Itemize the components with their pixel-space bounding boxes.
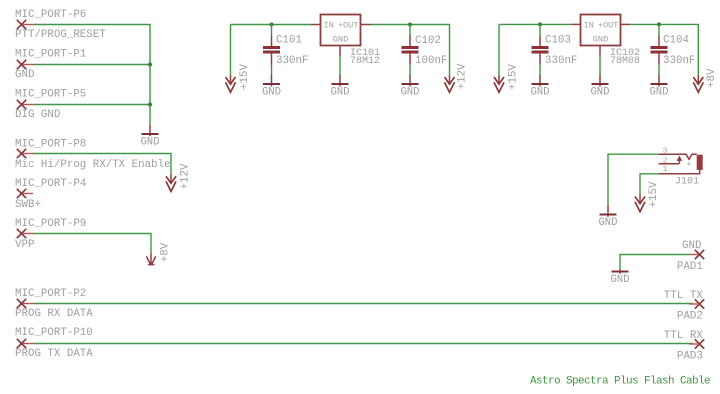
svg-text:C104: C104 bbox=[663, 35, 689, 47]
svg-text:GND: GND bbox=[530, 87, 549, 99]
svg-text:TTL RX: TTL RX bbox=[664, 330, 703, 342]
svg-text:TTL TX: TTL TX bbox=[664, 290, 703, 302]
svg-text:C102: C102 bbox=[415, 35, 441, 47]
svg-text:IN: IN bbox=[584, 20, 594, 30]
svg-text:GND: GND bbox=[400, 87, 419, 99]
svg-text:+15V: +15V bbox=[239, 64, 251, 90]
svg-text:GND: GND bbox=[262, 87, 281, 99]
svg-text:78M12: 78M12 bbox=[350, 56, 380, 67]
svg-text:PAD3: PAD3 bbox=[677, 351, 703, 363]
svg-text:MIC_PORT-P5: MIC_PORT-P5 bbox=[15, 89, 86, 101]
svg-text:MIC_PORT-P2: MIC_PORT-P2 bbox=[15, 288, 86, 300]
svg-text:C101: C101 bbox=[276, 35, 302, 47]
svg-text:+OUT: +OUT bbox=[338, 20, 359, 30]
svg-text:DIG GND: DIG GND bbox=[15, 109, 60, 121]
svg-text:+12V: +12V bbox=[457, 63, 469, 89]
svg-text:Mic Hi/Prog RX/TX Enable: Mic Hi/Prog RX/TX Enable bbox=[15, 159, 171, 171]
svg-text:PAD2: PAD2 bbox=[677, 311, 703, 323]
svg-text:PAD1: PAD1 bbox=[677, 261, 703, 273]
svg-text:+15V: +15V bbox=[508, 64, 520, 90]
svg-text:IN: IN bbox=[324, 20, 334, 30]
svg-text:+: + bbox=[686, 159, 691, 169]
svg-text:1: 1 bbox=[663, 166, 668, 174]
svg-text:330nF: 330nF bbox=[663, 55, 695, 67]
svg-text:330nF: 330nF bbox=[545, 55, 577, 67]
svg-text:MIC_PORT-P9: MIC_PORT-P9 bbox=[15, 218, 86, 230]
svg-text:PROG TX DATA: PROG TX DATA bbox=[15, 348, 93, 360]
svg-text:+8V: +8V bbox=[160, 242, 172, 262]
svg-text:MIC_PORT-P4: MIC_PORT-P4 bbox=[15, 178, 86, 190]
svg-text:330nF: 330nF bbox=[276, 55, 308, 67]
svg-text:+12V: +12V bbox=[180, 163, 192, 189]
svg-text:C103: C103 bbox=[545, 35, 571, 47]
svg-text:Astro Spectra Plus Flash Cable: Astro Spectra Plus Flash Cable bbox=[530, 376, 710, 388]
svg-text:PROG RX DATA: PROG RX DATA bbox=[15, 308, 93, 320]
svg-text:SWB+: SWB+ bbox=[15, 199, 41, 211]
svg-text:100nF: 100nF bbox=[415, 55, 447, 67]
svg-text:GND: GND bbox=[590, 87, 609, 99]
svg-text:GND: GND bbox=[15, 69, 34, 81]
svg-text:MIC_PORT-P1: MIC_PORT-P1 bbox=[15, 49, 86, 61]
svg-text:MIC_PORT-P6: MIC_PORT-P6 bbox=[15, 9, 86, 21]
svg-text:J101: J101 bbox=[675, 177, 699, 188]
svg-text:GND: GND bbox=[593, 35, 608, 45]
svg-text:GND: GND bbox=[598, 217, 617, 229]
svg-text:GND: GND bbox=[682, 240, 701, 252]
svg-text:PTT/PROG_RESET: PTT/PROG_RESET bbox=[15, 29, 106, 41]
svg-text:GND: GND bbox=[330, 87, 349, 99]
svg-text:+15V: +15V bbox=[648, 181, 660, 207]
svg-text:78M08: 78M08 bbox=[610, 56, 640, 67]
svg-text:GND: GND bbox=[333, 35, 348, 45]
svg-text:VPP: VPP bbox=[15, 239, 34, 251]
svg-text:MIC_PORT-P10: MIC_PORT-P10 bbox=[15, 327, 93, 339]
svg-text:GND: GND bbox=[140, 136, 159, 148]
svg-text:GND: GND bbox=[649, 87, 668, 99]
svg-text:+8V: +8V bbox=[706, 68, 718, 88]
svg-text:+OUT: +OUT bbox=[598, 20, 619, 30]
svg-text:2: 2 bbox=[663, 157, 668, 165]
svg-text:GND: GND bbox=[610, 274, 629, 286]
svg-text:3: 3 bbox=[663, 148, 668, 156]
